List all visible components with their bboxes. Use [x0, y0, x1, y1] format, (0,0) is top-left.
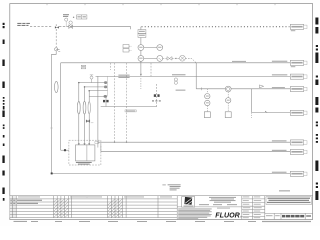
mid line label strip	[125, 110, 136, 112]
continuation label C	[290, 74, 307, 79]
inline instrument jog row	[104, 95, 107, 98]
line B label text	[272, 61, 287, 62]
inline instrument row2	[104, 86, 107, 89]
chain1 box	[204, 112, 210, 118]
instrument bubble chain1 b	[205, 100, 210, 105]
notes text block	[162, 184, 180, 190]
instrument bubble PT	[138, 56, 144, 62]
small valves on feeders	[86, 120, 90, 123]
wire tank feeder 1	[78, 83, 80, 144]
valve spindle feeder2	[83, 101, 86, 114]
wire line E	[252, 112, 290, 114]
line H label text	[272, 172, 287, 173]
valve spindle feeder3	[88, 102, 90, 114]
wire line D	[196, 88, 290, 90]
drawing title box	[266, 197, 312, 205]
flag tag above D	[259, 85, 263, 88]
wire line C	[96, 75, 291, 77]
wire tank feeder 2	[84, 87, 86, 144]
logo glyph	[184, 197, 192, 205]
wire G stub from tank	[100, 145, 102, 152]
wire tank feeder 3	[88, 91, 90, 144]
control valve circle	[180, 55, 186, 61]
continuation label H	[290, 171, 307, 176]
wire upper jog	[89, 96, 106, 106]
continuation label D	[290, 87, 307, 92]
continuation label E	[290, 110, 307, 115]
revision table header text	[18, 196, 172, 199]
line G label text	[272, 150, 287, 151]
zone ticks top border	[47, 4, 275, 6]
wire line A dashed from-label	[30, 26, 53, 28]
line C label text	[272, 74, 287, 75]
svg-text:FLUOR: FLUOR	[215, 210, 240, 219]
wire V8 D to E	[251, 89, 253, 113]
wire V1 signal drop from line A junction	[55, 29, 57, 47]
instrument bubble PIC	[157, 45, 163, 51]
continuation label F	[290, 140, 307, 145]
title text rows	[267, 198, 311, 204]
signature diagonals group1	[54, 199, 69, 218]
line C label near valve row	[172, 74, 186, 75]
valve in signal row	[167, 57, 172, 61]
wire column from line C	[107, 76, 109, 96]
line F label text	[272, 140, 287, 141]
arrowheads into tank	[78, 143, 80, 146]
line C inline label	[118, 75, 129, 78]
junction valve on line A	[55, 24, 59, 28]
instrument bubble chain1 a	[205, 94, 210, 99]
field labels left column	[243, 197, 262, 219]
wire stub row1	[79, 82, 104, 84]
drawing number	[282, 215, 304, 218]
wire stub row3	[89, 90, 107, 92]
title block frame	[177, 196, 312, 220]
tick on H riser	[50, 127, 52, 129]
continuation label G	[290, 149, 307, 154]
revision table frame	[10, 196, 16, 218]
node dot	[175, 58, 176, 59]
company logo box	[182, 197, 195, 208]
arrow tick on E	[265, 111, 268, 113]
wire V7	[195, 63, 197, 89]
wire signal row	[163, 58, 197, 62]
valve spindle feeder1	[77, 101, 80, 114]
wire line B	[61, 62, 290, 64]
instrument bubble above line A	[69, 21, 72, 24]
wire tank inlet horizontal	[61, 149, 69, 151]
corner dots on stubs	[78, 82, 90, 92]
tank corner tag	[95, 142, 99, 144]
tank divider	[86, 145, 88, 161]
wire V2 from line B left corner down	[60, 63, 62, 150]
dark tag XX pair left	[103, 100, 109, 102]
top cluster vent text	[63, 14, 69, 17]
boxed tag pair top	[77, 15, 87, 19]
scale box text	[266, 215, 273, 216]
wire line H	[52, 173, 291, 175]
top cluster symbol	[65, 18, 68, 21]
bubble pair below line C	[174, 78, 177, 81]
tank inner box	[76, 145, 95, 161]
continuation label A	[290, 24, 307, 31]
control valve spindle on V1	[55, 81, 59, 92]
chain2 box	[225, 112, 231, 118]
line A source label text	[17, 23, 30, 26]
filled node on tank inlet	[64, 149, 66, 151]
tank caption	[76, 162, 92, 165]
instrument bubble PY	[157, 56, 163, 62]
continuation label B	[290, 60, 307, 67]
instrument bubble PI	[138, 45, 144, 51]
small box tag on line B	[81, 65, 85, 69]
dark tag XX pair right	[154, 94, 160, 97]
tag text under bubbles	[176, 90, 186, 91]
bottom margin microtext	[14, 221, 312, 222]
chain2 bubble	[226, 98, 231, 103]
wire drops from line B	[111, 63, 127, 142]
tank outer dashed boundary	[69, 140, 101, 165]
wire line G	[101, 151, 290, 153]
wire bubble link	[144, 48, 157, 59]
V3 continuation below line C	[140, 78, 142, 89]
disclaimer paragraph	[178, 209, 212, 220]
junction marks	[152, 100, 161, 101]
reference drawings caption	[279, 190, 290, 191]
inline instrument row1	[104, 81, 107, 84]
wire V6 C to F corner	[97, 76, 99, 142]
node dot	[73, 17, 74, 18]
wire V3 tap from line A	[140, 27, 142, 74]
chain1 signal dashes	[206, 89, 208, 93]
stacked tag boxes left of V3	[123, 45, 132, 53]
wire line A dotted to continuation A	[142, 26, 290, 28]
revision row entries	[10, 200, 42, 204]
junction dots on line F	[114, 142, 115, 143]
wire stub row2	[85, 86, 105, 88]
wire line A solid	[73, 27, 131, 30]
company name lines	[199, 197, 237, 205]
node dot H corner	[51, 172, 53, 174]
wire V4	[150, 63, 152, 77]
inline symbol on V1	[55, 48, 61, 54]
chain2 double circle on D	[225, 86, 231, 92]
signature diagonals group2	[108, 199, 123, 218]
wire line F	[98, 141, 290, 143]
valve with actuator above stub row	[90, 76, 93, 79]
boxed tag pair on V3	[138, 30, 146, 38]
wire line A mid	[59, 26, 73, 28]
wire F corner riser	[97, 142, 99, 147]
arrowhead into line C	[140, 74, 142, 76]
junction tick on D	[201, 87, 203, 90]
valve on line A	[69, 25, 73, 28]
wire mid horizontal line	[101, 106, 157, 108]
wire V5	[155, 84, 157, 107]
